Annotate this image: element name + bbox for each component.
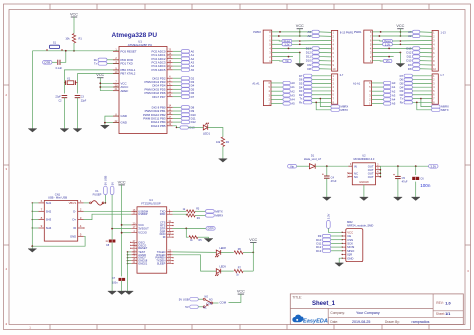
ground (C2) (63, 98, 65, 129)
wire 3.3V to header pin4 (392, 43, 432, 45)
svg-text:USB - Mini USB: USB - Mini USB (48, 196, 67, 200)
net flag D3 (181, 80, 194, 84)
wire RXD to R4 (173, 214, 187, 215)
power VCC (switch) (237, 290, 245, 297)
net flag A1 (181, 53, 194, 57)
wire reset net (33, 50, 120, 52)
net flag D12 (406, 51, 420, 55)
net flag D3 (400, 89, 413, 93)
svg-text:SH2: SH2 (46, 209, 52, 213)
wire flag to header (319, 64, 331, 66)
ground (MCU) (101, 125, 110, 129)
capacitor C6 100n (415, 166, 417, 175)
wire D9 to module (331, 235, 343, 237)
svg-text:U4: U4 (149, 198, 153, 202)
svg-text:VCC: VCC (249, 238, 257, 242)
net flag D9 (181, 109, 194, 113)
net flag D6 (299, 78, 312, 82)
net flag A0 (283, 81, 295, 85)
net flag D4 (181, 84, 194, 88)
svg-text:D2: D2 (299, 93, 303, 97)
wire to D8 (173, 106, 182, 108)
svg-text:3.3V: 3.3V (327, 213, 331, 219)
svg-text:PC6 RESET: PC6 RESET (121, 49, 137, 53)
power VCC (header) (396, 24, 404, 31)
svg-text:VBUS: VBUS (69, 201, 77, 205)
net flag A3 (408, 30, 420, 34)
net flag D11 (181, 117, 196, 121)
svg-text:Date:: Date: (330, 320, 338, 324)
wire flag to header (413, 79, 433, 81)
wire D13 to LED1 (188, 127, 203, 129)
wire R7 to VCC rail (243, 270, 253, 272)
node NC pin dots (FT232) (172, 222, 173, 223)
svg-text:FUSEP: FUSEP (93, 192, 102, 196)
svg-text:A5: A5 (191, 68, 195, 72)
svg-text:D4: D4 (299, 85, 303, 89)
wire USB D- to FT232 (84, 210, 132, 212)
wire to A0 (372, 82, 384, 84)
wire to D7 (173, 96, 182, 98)
net flag A4 (283, 97, 295, 101)
net flag D12 (NRF) (316, 245, 331, 249)
wire C7 down / ground (VCC rail) (121, 281, 123, 291)
svg-text:GND: GND (70, 234, 76, 238)
wire flag to header (319, 60, 331, 62)
wire flag to header (413, 94, 433, 96)
net flag A2 (307, 34, 319, 38)
svg-text:D13: D13 (316, 249, 322, 253)
net flag 5V USB (switch) (179, 297, 199, 301)
svg-text:SH1: SH1 (46, 201, 52, 205)
svg-text:A5: A5 (392, 102, 396, 106)
svg-text:D12: D12 (191, 120, 197, 124)
wire row4 to D13 (372, 47, 412, 49)
net flag D5 (400, 81, 413, 85)
svg-text:1.0: 1.0 (445, 301, 450, 305)
net flag A2 (408, 34, 420, 38)
wire to A5 (372, 103, 384, 105)
node reset junction (73, 50, 75, 52)
wire DTR net (173, 227, 207, 229)
net flag D8 (408, 67, 420, 71)
svg-text:U2: U2 (362, 154, 366, 158)
wire R2 to ground (222, 147, 224, 159)
svg-text:FT232RL/SSOP: FT232RL/SSOP (141, 201, 161, 205)
svg-text:MC33269DR2-3.3: MC33269DR2-3.3 (353, 157, 374, 161)
svg-text:AREF: AREF (121, 89, 129, 93)
net flag A5 (181, 68, 194, 72)
power VCC (header) (296, 24, 304, 31)
svg-text:3.3V: 3.3V (284, 43, 289, 46)
net flag D13 (306, 47, 320, 51)
svg-text:D7: D7 (191, 95, 195, 99)
power VCC (reset pull-up) (70, 13, 78, 20)
capacitor C8 1n (109, 240, 116, 243)
svg-text:VCCIO: VCCIO (138, 231, 147, 235)
svg-text:VCC: VCC (138, 223, 144, 227)
wire LED9 to R7 (221, 270, 234, 272)
svg-text:DIG13 PB5: DIG13 PB5 (151, 124, 166, 128)
net flag D7 (400, 74, 413, 78)
svg-text:A2: A2 (408, 34, 412, 38)
net flag Tx (299, 97, 312, 101)
ground (C6) (415, 182, 417, 198)
svg-text:VCC: VCC (96, 73, 104, 77)
ground (LED1) (219, 159, 228, 163)
net flag D13 (406, 47, 420, 51)
svg-text:M8TX: M8TX (341, 108, 349, 112)
resistor R6 1k (234, 251, 243, 254)
svg-text:NC: NC (354, 175, 358, 179)
wire to A0 (271, 82, 283, 84)
svg-text:D3: D3 (299, 89, 303, 93)
svg-text:GND21: GND21 (138, 262, 147, 266)
net flag D10 (NRF) (316, 238, 331, 242)
wire GND pins (105, 116, 119, 125)
wire to D12 (173, 121, 182, 123)
svg-text:RESET: RESET (138, 246, 147, 250)
svg-text:Vin: Vin (386, 60, 390, 63)
svg-text:NO: NO (205, 296, 209, 299)
net flag A2 (181, 57, 194, 61)
wire flag to header (413, 101, 433, 103)
svg-text:D8: D8 (307, 67, 311, 71)
wire flag to header (319, 56, 331, 58)
resistor R7 1k (234, 270, 243, 273)
net flag 5V (vertical) (110, 182, 114, 195)
svg-text:A5: A5 (291, 102, 295, 106)
svg-text:8-13 PWR1: 8-13 PWR1 (340, 30, 354, 34)
resistor R2 10k (221, 137, 224, 147)
svg-text:A1-A1: A1-A1 (353, 81, 361, 85)
wire flag to header (312, 94, 332, 96)
wire flag to header (312, 86, 332, 88)
net flag Vin (383, 59, 392, 63)
title block (290, 294, 463, 325)
wire flag to header (413, 75, 433, 77)
net flag D9 (307, 63, 319, 67)
svg-text:PB7 XTAL2: PB7 XTAL2 (121, 72, 136, 76)
svg-text:R1: R1 (79, 37, 83, 41)
net flag 3.3V (282, 43, 292, 47)
wire row1 to Vin (372, 60, 383, 62)
svg-text:5V USB: 5V USB (179, 297, 189, 301)
svg-text:D+: D+ (73, 218, 77, 222)
svg-text:D6: D6 (299, 78, 303, 82)
svg-text:M9RX: M9RX (215, 214, 223, 218)
svg-text:C5: C5 (402, 176, 406, 180)
wire D11 to module (331, 242, 343, 244)
net flag D12 (181, 120, 196, 124)
wire flag to header (312, 101, 332, 103)
wire flag to header (420, 47, 432, 49)
svg-text:A2: A2 (307, 34, 311, 38)
ground (R5) (204, 239, 213, 243)
wire flag to header (420, 60, 432, 62)
push button S1 (47, 45, 62, 51)
wire Rx to TX flag (417, 102, 432, 109)
svg-text:5V USB: 5V USB (104, 175, 108, 185)
ground (FT232) (125, 291, 134, 295)
svg-text:5V: 5V (110, 182, 114, 185)
svg-text:S1: S1 (53, 41, 57, 45)
svg-text:1/1: 1/1 (445, 312, 450, 316)
ground (left rail) (32, 51, 34, 129)
capacitor C2 22pF (62, 96, 68, 98)
svg-text:diode_smd_A7: diode_smd_A7 (304, 157, 322, 161)
wire VCC to AVCC/AREF (99, 80, 101, 91)
svg-text:D5: D5 (400, 81, 404, 85)
net flag A2 (283, 89, 295, 93)
svg-text:PWR1: PWR1 (354, 30, 362, 34)
wire to D6 (173, 92, 182, 94)
wire row6 to Reset (372, 39, 382, 42)
LED LED1 (203, 123, 209, 130)
net flag A3 (181, 61, 194, 65)
capacitor C3 22pF (75, 96, 81, 98)
svg-text:Atmega328 PU: Atmega328 PU (112, 32, 158, 39)
wire to D9 (173, 110, 182, 112)
wire flag to header (420, 51, 432, 53)
net flag A1 (283, 85, 295, 89)
wire R6 to VCC rail (243, 251, 253, 253)
svg-text:1-13: 1-13 (441, 30, 447, 34)
wire Reset to header pin3 (292, 40, 332, 43)
net flag D7 (299, 74, 312, 78)
svg-text:CN1: CN1 (55, 192, 61, 196)
switch SW1 power select (203, 298, 213, 308)
svg-text:C6: C6 (420, 176, 424, 180)
wire flag to header (312, 82, 332, 84)
capacitor C4 47uF (326, 166, 328, 176)
wire to A1 (173, 54, 182, 56)
net flag D11 (407, 55, 420, 59)
svg-text:D8: D8 (408, 67, 412, 71)
net flag D7 (181, 95, 194, 99)
wire to A3 (271, 94, 283, 96)
svg-text:RI: RI (163, 235, 166, 239)
LED LED8 (215, 250, 221, 257)
wire flag to header (319, 68, 331, 70)
wire VCC down (121, 187, 123, 276)
net flag A1 (384, 85, 396, 89)
net flag A0 (181, 49, 194, 53)
svg-text:Your Company: Your Company (356, 311, 380, 315)
svg-text:VCC: VCC (296, 24, 304, 28)
svg-text:GND: GND (347, 256, 353, 260)
svg-text:0-7: 0-7 (340, 74, 344, 77)
svg-text:PC5 ADC5: PC5 ADC5 (152, 68, 166, 72)
ground (power header) (296, 64, 305, 68)
svg-text:Sheet_1: Sheet_1 (312, 301, 336, 307)
net flag D12 (306, 51, 320, 55)
net flag A3 (307, 30, 319, 34)
power VCC (LEDs) (249, 238, 257, 245)
net flag Tx (MCU) (94, 62, 107, 66)
svg-text:REV:: REV: (436, 301, 443, 305)
wire XTAL1 (64, 70, 119, 94)
net flag D10 (181, 113, 196, 117)
net flag A5 (283, 102, 295, 106)
svg-text:D1: D1 (311, 154, 315, 158)
wire A2 to header (420, 35, 432, 37)
net flag Vin (regulator input) (288, 164, 297, 168)
svg-text:DTR: DTR (44, 60, 50, 64)
wire LED8 to R6 (221, 251, 234, 253)
svg-text:TITLE:: TITLE: (292, 296, 302, 300)
net flag A3 (384, 93, 396, 97)
svg-text:D7: D7 (400, 74, 404, 78)
wire flag to header (319, 47, 331, 49)
wire Vin to D1 (297, 165, 310, 167)
ground (C4) (326, 178, 328, 197)
net flag D2 (181, 76, 194, 80)
net flag D9 (408, 63, 420, 67)
wire flag to header (413, 90, 433, 92)
net flag 3.3V (383, 43, 393, 47)
svg-text:PD1 TXD: PD1 TXD (121, 62, 133, 66)
wire TXD to R3 (173, 210, 187, 212)
resistor R4 1k (186, 214, 195, 217)
net flag M8RX (331, 105, 349, 109)
net flag M9RX (432, 105, 450, 109)
svg-text:10k: 10k (216, 140, 221, 144)
wire to D13 (173, 126, 180, 128)
net flag D9 (NRF) (318, 234, 331, 238)
svg-text:D6: D6 (400, 78, 404, 82)
wire to D10 (173, 114, 182, 116)
svg-text:R2: R2 (226, 140, 230, 144)
svg-text:3.3V: 3.3V (385, 43, 390, 46)
svg-text:47uF: 47uF (402, 179, 408, 183)
svg-text:NRF24_module_SMD: NRF24_module_SMD (347, 224, 373, 228)
svg-text:VCC: VCC (237, 290, 245, 294)
svg-text:RXD: RXD (160, 212, 166, 216)
net flag D13 (NRF) (316, 249, 331, 253)
svg-text:SH4: SH4 (46, 226, 52, 230)
wire XTAL2 (78, 74, 120, 94)
net flag Rx (400, 100, 413, 104)
svg-text:OUT: OUT (368, 175, 374, 179)
node VCC junctions (122, 224, 132, 226)
net flag Rx (299, 100, 312, 104)
wire TXLED to LED8 (173, 251, 217, 254)
ground (U2) (360, 197, 369, 201)
wire flag to header (420, 56, 432, 58)
svg-text:VCC: VCC (396, 24, 404, 28)
wire R5 to ground (198, 236, 209, 238)
net flag D13 (180, 126, 195, 130)
svg-text:USBDP: USBDP (138, 212, 147, 216)
wire LED1 to R2 (208, 128, 223, 137)
svg-text:0.1uF: 0.1uF (56, 67, 63, 70)
wire row4 to D13 (272, 47, 312, 49)
net flag A4 (181, 64, 194, 68)
wire to D11 (173, 117, 182, 119)
svg-text:DIG7 PD7: DIG7 PD7 (152, 95, 166, 99)
wire 3.3V to header pin4 (292, 43, 332, 45)
wire row7 to A2 (372, 35, 412, 37)
wire DTR to R5 (186, 228, 188, 237)
wire to A4 (173, 65, 182, 67)
net flag Vin (283, 59, 292, 63)
wire to switch NC (198, 306, 203, 308)
net flag D10 (406, 59, 420, 63)
wire 3.3V to VCC pin (328, 228, 342, 232)
capacitor C1 0.1uF (58, 60, 60, 65)
svg-text:Company:: Company: (330, 311, 345, 315)
svg-text:D7: D7 (299, 74, 303, 78)
wire DTR to C1 (52, 61, 57, 63)
net flag Reset (383, 39, 393, 43)
wire GND pin CN1 (32, 236, 85, 246)
net flag Tx (400, 97, 413, 101)
wire row5 to 3.3V (372, 43, 382, 45)
svg-text:NO: NO (209, 298, 213, 301)
net flag D2 (299, 93, 312, 97)
svg-text:10k: 10k (65, 37, 70, 41)
svg-text:2019-08-25: 2019-08-25 (352, 320, 370, 324)
svg-text:VCC: VCC (70, 13, 78, 17)
EasyEDA logo (292, 315, 328, 325)
wire flag to header (312, 98, 332, 100)
svg-text:5V: 5V (185, 305, 189, 309)
wire R1 to reset net (73, 43, 75, 51)
svg-text:COM: COM (220, 300, 227, 304)
net flag Reset (282, 39, 292, 43)
wire flag to header (312, 75, 332, 77)
LED LED9 (215, 269, 221, 276)
wire to A2 (372, 90, 384, 92)
net flag A3 (283, 93, 295, 97)
wire fuse to 5V USB net (104, 202, 106, 204)
svg-text:A1-A1: A1-A1 (252, 81, 260, 85)
svg-text:47uF: 47uF (331, 179, 337, 183)
svg-text:MR2: MR2 (347, 220, 353, 224)
wire 5V net down (111, 195, 113, 241)
wire R4 to M9RX (195, 214, 205, 216)
wire row6 to Reset (272, 39, 282, 42)
wire to A0 (173, 50, 182, 52)
svg-text:NC: NC (203, 307, 207, 310)
ground (CN1) (31, 246, 33, 249)
svg-text:Vin: Vin (290, 164, 295, 168)
wire A3 to header (319, 31, 331, 34)
wire to A4 (271, 98, 283, 100)
svg-text:LED1: LED1 (203, 132, 210, 136)
wire flag to header (312, 79, 332, 81)
wire D1 to U2 (315, 165, 352, 167)
wire flag to header (413, 98, 433, 100)
net flag M8TX (331, 108, 348, 112)
wire Tx to RX flag (320, 99, 331, 107)
wire to D4 (173, 85, 182, 87)
svg-text:DTR: DTR (208, 227, 214, 231)
svg-text:D5: D5 (299, 81, 303, 85)
wire to A5 (271, 103, 283, 105)
svg-text:Vin: Vin (285, 60, 289, 63)
svg-text:SLEEP: SLEEP (157, 262, 166, 266)
net flag D4 (400, 85, 413, 89)
wire Rx to PD0 (107, 59, 119, 61)
resistor R1 10k (72, 34, 75, 44)
svg-text:VCC: VCC (118, 180, 126, 184)
svg-text:Drawn By:: Drawn By: (385, 320, 400, 324)
net flag D3 (299, 89, 312, 93)
wire USB D+ to FT232 (84, 214, 132, 219)
svg-text:D3: D3 (400, 89, 404, 93)
